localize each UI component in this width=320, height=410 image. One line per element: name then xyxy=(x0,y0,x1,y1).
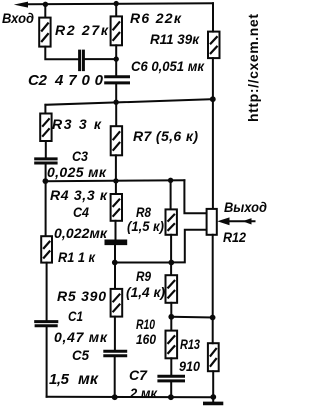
resistor R4 xyxy=(111,194,122,221)
svg-text:R11 39к: R11 39к xyxy=(150,31,200,47)
junction bus4 / middle rail xyxy=(112,260,118,266)
wire C4 to bus4 xyxy=(114,245,116,289)
svg-text:0,022мк: 0,022мк xyxy=(54,225,108,241)
wire R2 bottom lead to C2 xyxy=(45,47,77,60)
label C3 xyxy=(72,148,88,164)
svg-text:C2: C2 xyxy=(28,72,48,89)
junction top bus / R6 xyxy=(114,1,119,6)
capacitor C4 xyxy=(105,241,128,244)
value label R4 3,3 к xyxy=(50,187,108,203)
wire R6 top lead xyxy=(115,4,117,17)
value label R6 22к xyxy=(130,10,182,26)
svg-text:R2 27к: R2 27к xyxy=(55,22,109,38)
ground xyxy=(203,402,223,406)
wire top input bus xyxy=(26,3,213,4)
node Вход input label xyxy=(2,10,34,26)
resistor R7 xyxy=(111,126,122,155)
label C5 xyxy=(72,347,89,363)
label C4 xyxy=(73,204,89,220)
value label C2 4700 xyxy=(28,72,104,89)
wire R7 to bus3 xyxy=(115,155,117,194)
capacitor C3 xyxy=(34,159,57,163)
wire right rail R11 to pot R12 xyxy=(212,58,214,209)
resistor R13 xyxy=(208,343,219,371)
junction bus5 / right rail xyxy=(210,315,216,321)
capacitor C6 xyxy=(104,77,130,83)
wire R2 top lead xyxy=(44,4,46,17)
value label R8 xyxy=(136,204,151,220)
wire R8 top lead xyxy=(170,180,172,209)
svg-text:R6 22к: R6 22к xyxy=(130,10,182,26)
svg-text:0,47 мк: 0,47 мк xyxy=(54,329,108,345)
svg-text:R1 1 к: R1 1 к xyxy=(58,249,96,265)
svg-text:R7 (5,6 к): R7 (5,6 к) xyxy=(133,128,198,144)
label R12 xyxy=(223,229,246,245)
capacitor C5 xyxy=(103,351,127,356)
junction bus2 / middle rail xyxy=(113,100,118,105)
value label R2 27к xyxy=(55,22,109,38)
wire bus3 corner branch to pot top-left xyxy=(184,180,206,213)
wire C3 to bus3 and down to R1 xyxy=(45,165,47,237)
svg-text:http://cxem.net: http://cxem.net xyxy=(245,14,261,122)
value label 910 xyxy=(179,358,200,374)
wire R4 to C4 xyxy=(115,221,117,240)
input arrow xyxy=(14,2,28,8)
potentiometer R12 xyxy=(207,209,217,235)
svg-text:R5 390: R5 390 xyxy=(57,288,106,304)
value label R9 xyxy=(136,268,151,284)
junction bus3 / R8 branch xyxy=(168,178,173,183)
svg-text:0,025 мк: 0,025 мк xyxy=(47,164,107,180)
wiper arrow Выход xyxy=(217,217,254,225)
watermark http://cxem.net xyxy=(245,14,261,122)
node Выход output label xyxy=(224,199,267,215)
junction bottom bus / middle rail xyxy=(112,394,118,400)
capacitor C1 xyxy=(34,322,58,326)
wire horizontal bus 2 xyxy=(45,99,212,105)
value label R13 xyxy=(180,336,200,352)
capacitor C2 xyxy=(80,50,84,72)
value label R1 1 к xyxy=(58,249,96,265)
junction C2 wire / middle rail xyxy=(114,56,119,61)
svg-text:C7: C7 xyxy=(129,367,148,383)
resistor R10 xyxy=(166,331,178,359)
value label R10 xyxy=(136,316,155,332)
svg-text:(1,4 к): (1,4 к) xyxy=(126,284,165,300)
label C7 xyxy=(129,367,148,383)
wire R13 to ground xyxy=(212,371,214,402)
value label 0,022 мк xyxy=(54,225,108,241)
wire R3 to C3 xyxy=(45,141,47,157)
capacitor C7 xyxy=(157,376,185,381)
wire horizontal bus 3 xyxy=(45,180,184,181)
value label 1,5 мк xyxy=(49,371,99,388)
svg-text:C6 0,051 мк: C6 0,051 мк xyxy=(131,58,205,74)
wire R1 to C1 xyxy=(46,263,48,320)
svg-text:2 мк: 2 мк xyxy=(129,385,158,401)
value label (1,4 к) xyxy=(126,284,165,300)
value label 0,47 мк xyxy=(54,329,108,345)
wire C1 to bottom bus xyxy=(46,327,48,397)
label C1 xyxy=(68,308,83,324)
svg-text:R3 3 к: R3 3 к xyxy=(52,116,102,132)
resistor R8 xyxy=(166,209,177,234)
resistor R3 xyxy=(40,114,51,142)
wire R6 to C6 xyxy=(115,45,117,75)
resistor R1 xyxy=(41,236,52,262)
svg-text:1,5: 1,5 xyxy=(49,371,70,388)
svg-text:R13: R13 xyxy=(180,336,200,352)
svg-text:мк: мк xyxy=(78,371,99,388)
wire R9 to junction xyxy=(170,303,172,331)
value label 2 мк xyxy=(129,385,158,401)
value label 160 xyxy=(136,331,156,347)
junction wire2 / right rail xyxy=(210,96,216,102)
value label R3 3 к xyxy=(52,116,102,132)
wire R5 to C5 xyxy=(114,317,116,350)
value label R5 390 xyxy=(57,288,106,304)
svg-text:R10: R10 xyxy=(136,316,155,332)
value label C6 0,051 мк xyxy=(131,58,205,74)
svg-text:(1,5 к): (1,5 к) xyxy=(127,218,164,234)
svg-text:160: 160 xyxy=(136,331,156,347)
junction bottom bus / right rail xyxy=(210,394,216,400)
junction bus4 / rail R8-R9 xyxy=(168,260,174,266)
wire C2 to middle rail xyxy=(85,58,116,60)
wire pot lower-left stub down to bus4 xyxy=(171,230,206,263)
wire C6 to junction xyxy=(115,84,117,126)
wire horizontal bus 5 xyxy=(171,316,212,319)
value label R7 (5,6 к) xyxy=(133,128,198,144)
svg-text:4700: 4700 xyxy=(54,72,104,89)
wire R10 to C7 xyxy=(170,358,172,375)
wire horizontal bus 4 xyxy=(115,262,172,264)
junction bus3 left end xyxy=(43,178,49,184)
svg-text:910: 910 xyxy=(179,358,200,374)
svg-text:R12: R12 xyxy=(223,229,246,245)
svg-text:C1: C1 xyxy=(68,308,83,324)
svg-text:Выход: Выход xyxy=(224,199,267,215)
value label (1,5 к) xyxy=(127,218,164,234)
svg-text:R4 3,3 к: R4 3,3 к xyxy=(50,187,108,203)
svg-text:R9: R9 xyxy=(136,268,151,284)
junction bottom bus / rail R10 xyxy=(168,394,174,400)
wire R3 top lead xyxy=(44,105,46,114)
resistor R11 xyxy=(208,32,220,58)
wire R12 bottom to R13 xyxy=(212,235,214,343)
wire right rail top xyxy=(212,3,214,31)
wire horizontal bottom bus xyxy=(47,396,214,398)
svg-text:C5: C5 xyxy=(72,347,89,363)
wire R8 bottom lead xyxy=(170,235,172,275)
wire C7 to bottom bus xyxy=(170,382,172,397)
resistor R6 xyxy=(111,16,122,45)
resistor R9 xyxy=(166,275,178,303)
junction bus3 / middle rail xyxy=(113,178,118,183)
resistor R2 xyxy=(39,18,50,47)
value label R11 39к xyxy=(150,31,200,47)
junction top bus / R2 xyxy=(43,2,48,7)
resistor R5 xyxy=(111,289,123,317)
svg-text:Вход: Вход xyxy=(2,10,34,26)
wire C5 to bottom bus xyxy=(114,357,116,397)
junction bus5 / rail R9-R10 xyxy=(168,314,174,320)
svg-text:C3: C3 xyxy=(72,148,88,164)
svg-text:C4: C4 xyxy=(73,204,89,220)
value label 0,025 мк xyxy=(47,164,107,180)
